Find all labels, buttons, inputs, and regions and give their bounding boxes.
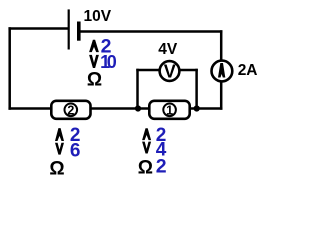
svg-text:2: 2 xyxy=(156,156,167,178)
svg-text:10V: 10V xyxy=(84,8,112,25)
svg-text:2: 2 xyxy=(67,103,74,117)
svg-text:4V: 4V xyxy=(158,41,178,58)
svg-text:6: 6 xyxy=(70,141,81,162)
svg-text:Ω: Ω xyxy=(49,158,64,179)
svg-text:Ω: Ω xyxy=(138,158,153,179)
svg-text:1: 1 xyxy=(166,103,173,117)
svg-text:2A: 2A xyxy=(238,62,258,79)
svg-text:Ω: Ω xyxy=(87,69,102,90)
svg-text:V: V xyxy=(164,61,176,81)
